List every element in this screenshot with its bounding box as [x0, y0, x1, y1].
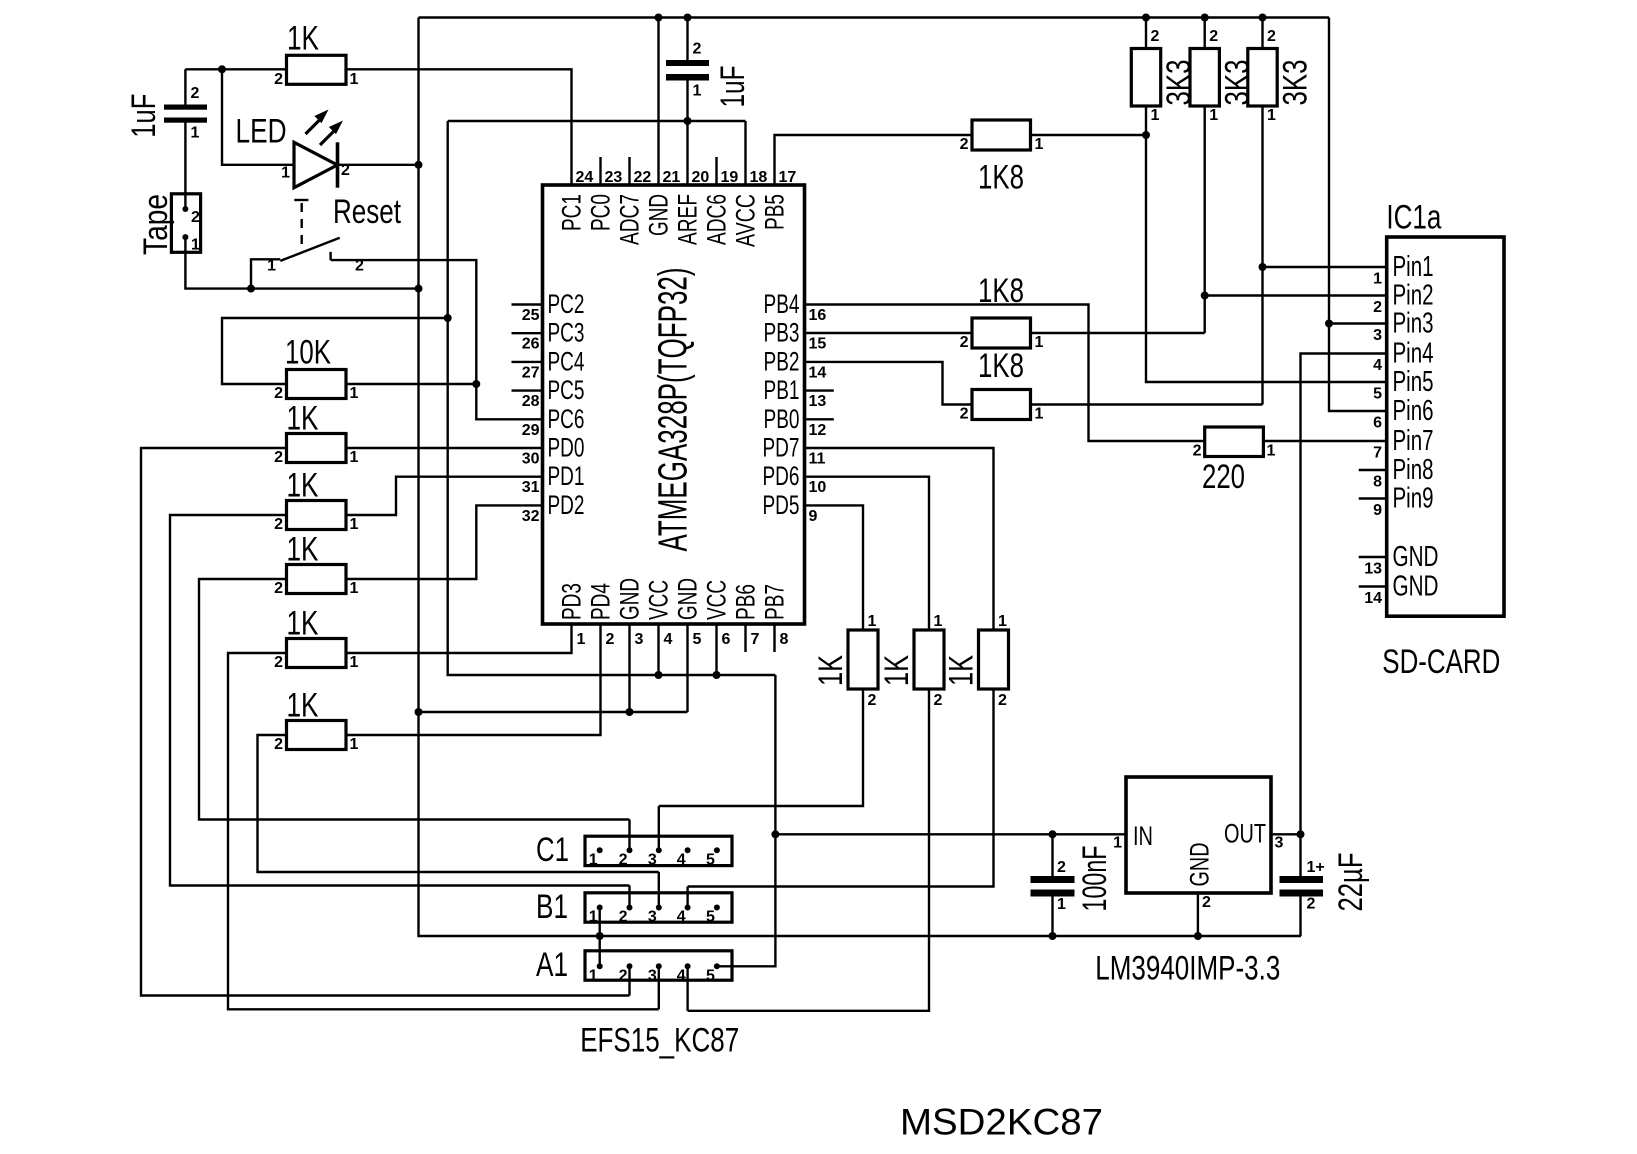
svg-text:1K: 1K	[287, 605, 319, 643]
svg-text:PD6: PD6	[763, 461, 800, 491]
wire 22uF cap connections	[1299, 834, 1301, 936]
resistor R 1K (PD1)	[287, 501, 347, 530]
svg-text:14: 14	[809, 364, 827, 381]
svg-text:9: 9	[1373, 502, 1382, 519]
svg-text:1: 1	[350, 385, 359, 402]
wire 1K8 pin1 to 3K3 vertical	[1031, 134, 1147, 136]
svg-text:Pin1: Pin1	[1393, 251, 1434, 283]
wire PB1 stub	[805, 389, 834, 391]
svg-text:1: 1	[1035, 136, 1044, 153]
svg-text:1: 1	[1267, 443, 1276, 460]
wire IC unconnected top stubs pins 23,22,19	[601, 157, 717, 185]
junction Pin1 net	[1259, 263, 1267, 271]
junction LED cathode to GND	[415, 161, 423, 169]
junction GND to B1.1/A1.1	[596, 932, 604, 940]
svg-text:1: 1	[1113, 835, 1122, 852]
junction GND rail / AREF cap	[684, 14, 692, 22]
wire 1K8 R3 pin1 to Pin1 net, pin2 to PB2	[805, 362, 1263, 405]
svg-text:1: 1	[350, 449, 359, 466]
svg-text:1K: 1K	[943, 655, 981, 686]
wire 3K3 R3 to rail and SD Pin1	[1263, 18, 1387, 405]
wire GND main left vertical and bottom rail	[419, 18, 1302, 937]
svg-text:16: 16	[809, 307, 827, 324]
svg-text:2: 2	[1373, 299, 1382, 316]
svg-text:PC6: PC6	[548, 404, 585, 434]
junction 10K pin1 / PC6	[472, 380, 480, 388]
svg-text:Pin4: Pin4	[1393, 338, 1434, 370]
resistor R 1K (PD3)	[287, 639, 347, 668]
wire VCC vertical down to A1 pin5	[717, 675, 776, 966]
junction Pin3 net	[1325, 320, 1333, 328]
svg-text:3: 3	[648, 909, 657, 926]
svg-text:ATMEGA328P(TQFP32): ATMEGA328P(TQFP32)	[650, 268, 696, 552]
junction Pin2 net	[1201, 292, 1209, 300]
svg-text:PB0: PB0	[764, 404, 800, 434]
wire GND top rail	[419, 16, 1330, 18]
svg-text:1: 1	[1209, 107, 1218, 124]
junction OUT / 22uF / Pin4	[1297, 830, 1305, 838]
capacitor 1uF (AREF)	[666, 60, 709, 66]
svg-text:2: 2	[274, 449, 283, 466]
svg-text:1: 1	[350, 654, 359, 671]
resistor R 1K (LED)	[287, 55, 347, 84]
svg-text:2: 2	[693, 41, 702, 58]
capacitor 100nF	[1031, 876, 1075, 883]
svg-text:11: 11	[809, 451, 826, 468]
wire PD3 net	[228, 624, 659, 1009]
svg-text:1: 1	[1373, 271, 1382, 288]
svg-text:AVCC: AVCC	[731, 194, 761, 247]
svg-text:2: 2	[960, 334, 969, 351]
connector Tape	[171, 194, 200, 253]
svg-text:13: 13	[1364, 561, 1382, 578]
svg-text:OUT: OUT	[1224, 819, 1266, 849]
svg-text:4: 4	[1373, 357, 1382, 374]
wire AREF/AVCC horizontal	[448, 121, 746, 185]
svg-text:2: 2	[619, 967, 628, 984]
svg-text:2: 2	[868, 692, 877, 709]
svg-text:26: 26	[522, 336, 540, 353]
svg-text:2: 2	[1151, 28, 1160, 45]
capacitor 1uF (left)	[164, 105, 207, 110]
svg-text:EFS15_KC87: EFS15_KC87	[580, 1022, 739, 1060]
svg-text:1K: 1K	[287, 20, 319, 58]
svg-text:1K: 1K	[812, 655, 850, 686]
svg-text:PB2: PB2	[764, 346, 800, 376]
op-amp U1 ATMEGA328P(TQFP32) body	[543, 185, 805, 624]
svg-text:12: 12	[809, 422, 827, 439]
svg-text:2: 2	[934, 692, 943, 709]
junction reset pin1 / tape	[247, 285, 255, 293]
svg-text:GND: GND	[1393, 571, 1439, 603]
svg-text:1: 1	[191, 237, 200, 254]
svg-text:PD4: PD4	[586, 583, 616, 620]
resistor 1K8 (PB2)	[972, 390, 1031, 420]
svg-text:PC2: PC2	[548, 289, 585, 319]
svg-text:Pin3: Pin3	[1393, 308, 1434, 340]
svg-text:2: 2	[274, 654, 283, 671]
svg-text:2: 2	[1209, 28, 1218, 45]
svg-text:GND: GND	[644, 194, 674, 236]
svg-text:GND: GND	[615, 578, 645, 620]
svg-text:5: 5	[693, 631, 702, 648]
svg-text:18: 18	[750, 169, 768, 186]
svg-text:22µF: 22µF	[1332, 853, 1370, 912]
svg-text:15: 15	[809, 336, 827, 353]
svg-text:Pin6: Pin6	[1393, 395, 1434, 427]
svg-text:3: 3	[648, 851, 657, 868]
resistor 220	[1205, 427, 1264, 457]
svg-text:VCC: VCC	[702, 580, 732, 620]
svg-text:1: 1	[350, 736, 359, 753]
svg-text:Pin7: Pin7	[1393, 425, 1434, 457]
wire VCC to LM3940 IN	[775, 833, 1126, 835]
svg-text:220: 220	[1202, 458, 1245, 496]
junction LM3940 GND	[1194, 932, 1202, 940]
connector C1	[585, 836, 732, 865]
svg-text:1K: 1K	[878, 655, 916, 686]
svg-text:GND: GND	[1185, 843, 1215, 887]
svg-text:LM3940IMP-3.3: LM3940IMP-3.3	[1095, 950, 1280, 988]
svg-text:2: 2	[998, 692, 1007, 709]
junction 100nF bottom	[1049, 932, 1057, 940]
svg-text:PD3: PD3	[557, 583, 587, 620]
wire GND rail to SD Pin3/Pin6	[1329, 18, 1387, 412]
svg-text:2: 2	[606, 631, 615, 648]
wire PB4 to 220 to SD Pin7	[805, 305, 1387, 442]
svg-text:PB7: PB7	[760, 584, 790, 620]
svg-text:ADC7: ADC7	[615, 194, 645, 245]
svg-text:2: 2	[960, 406, 969, 423]
svg-text:MSD2KC87: MSD2KC87	[900, 1101, 1103, 1143]
resistor R 1K (PD0)	[287, 434, 347, 463]
svg-text:B1: B1	[536, 888, 568, 926]
resistor R 1K (PD2)	[287, 565, 347, 594]
svg-text:SD-CARD: SD-CARD	[1382, 643, 1500, 681]
svg-text:3: 3	[635, 631, 644, 648]
svg-text:8: 8	[780, 631, 789, 648]
svg-text:1: 1	[589, 909, 598, 926]
svg-text:2: 2	[274, 580, 283, 597]
svg-text:2: 2	[355, 258, 364, 275]
svg-text:4: 4	[677, 851, 686, 868]
connector A1	[585, 951, 732, 980]
svg-text:7: 7	[751, 631, 760, 648]
svg-text:1+: 1+	[1307, 859, 1325, 876]
regulator LM3940IMP-3.3 body	[1126, 777, 1271, 893]
wire 3K3 R2 to rail and SD Pin2	[1205, 18, 1387, 334]
svg-text:3K3: 3K3	[1219, 60, 1257, 106]
svg-text:9: 9	[809, 508, 818, 525]
wire GND to IC pin21	[657, 18, 659, 186]
wire PD0 net	[141, 448, 630, 996]
svg-text:PC4: PC4	[548, 346, 585, 376]
junction 100nF top	[1049, 830, 1057, 838]
svg-text:Pin9: Pin9	[1393, 483, 1434, 515]
svg-text:PD2: PD2	[548, 490, 585, 520]
svg-text:1: 1	[281, 165, 290, 182]
svg-text:31: 31	[522, 479, 540, 496]
switch Reset	[280, 238, 339, 261]
svg-text:PD5: PD5	[763, 490, 800, 520]
svg-text:1: 1	[267, 258, 276, 275]
svg-text:3: 3	[1373, 327, 1382, 344]
svg-text:1uF: 1uF	[125, 94, 163, 138]
svg-text:3: 3	[648, 967, 657, 984]
svg-text:2: 2	[1307, 896, 1316, 913]
wire AREF cap to rail and to pin20	[686, 18, 688, 186]
svg-text:2: 2	[341, 162, 350, 179]
wire PD1 net	[170, 477, 630, 908]
svg-text:1: 1	[577, 631, 586, 648]
svg-text:2: 2	[274, 736, 283, 753]
junction VCC to LM3940 IN	[771, 830, 779, 838]
svg-text:LED: LED	[236, 112, 287, 150]
svg-text:1: 1	[191, 125, 200, 142]
svg-text:3K3: 3K3	[1160, 60, 1198, 106]
svg-text:7: 7	[1373, 445, 1382, 462]
svg-text:A1: A1	[536, 946, 568, 984]
junction 10K to VCC	[444, 314, 452, 322]
wire IC unconnected bottom stubs pins 7,8	[746, 624, 775, 652]
svg-text:2: 2	[1267, 28, 1276, 45]
svg-text:Tape: Tape	[137, 194, 175, 255]
svg-text:PC5: PC5	[548, 375, 585, 405]
wire LED branch	[222, 69, 419, 165]
resistor 3K3 (x=1204.7)	[1190, 49, 1219, 107]
junction GND pin3	[626, 708, 634, 716]
capacitor 22uF	[1280, 876, 1324, 883]
wire net PC1: 1K to pin24	[185, 69, 571, 185]
svg-text:1K8: 1K8	[978, 272, 1024, 310]
svg-text:1K8: 1K8	[978, 347, 1024, 385]
svg-text:8: 8	[1373, 474, 1382, 491]
svg-text:19: 19	[721, 169, 739, 186]
svg-text:5: 5	[706, 909, 715, 926]
svg-text:4: 4	[664, 631, 673, 648]
svg-text:13: 13	[809, 393, 827, 410]
svg-text:IN: IN	[1133, 821, 1153, 851]
svg-text:PD7: PD7	[763, 433, 800, 463]
svg-text:2: 2	[1193, 443, 1202, 460]
junction VCC pin6	[713, 671, 721, 679]
wire reset pin1 lead	[251, 259, 280, 288]
svg-text:1: 1	[350, 71, 359, 88]
svg-text:1: 1	[1151, 107, 1160, 124]
svg-text:2: 2	[191, 209, 200, 226]
svg-text:5: 5	[706, 967, 715, 984]
wire SD Pin4 to LM3940 OUT	[1271, 354, 1387, 835]
svg-text:23: 23	[605, 169, 623, 186]
svg-text:14: 14	[1364, 590, 1382, 607]
svg-text:1: 1	[1057, 896, 1066, 913]
wire 1K8 R2 pin1 to Pin2 net	[805, 332, 1205, 334]
svg-text:6: 6	[722, 631, 731, 648]
svg-text:GND: GND	[673, 578, 703, 620]
connector IC1a SD-CARD body	[1387, 237, 1504, 616]
resistor 1K vertical (x=993.5)	[979, 630, 1009, 689]
junction AREF cap / AVCC line	[684, 117, 692, 125]
wire PD2 net	[199, 505, 630, 850]
svg-text:1K: 1K	[287, 400, 319, 438]
svg-text:Pin5: Pin5	[1393, 366, 1434, 398]
svg-text:1K8: 1K8	[978, 159, 1024, 197]
wire 1uF cap to Tape pin2	[184, 69, 186, 209]
svg-text:Pin8: Pin8	[1393, 454, 1434, 486]
svg-text:1: 1	[998, 613, 1007, 630]
wire B1 pin1 / A1 pin1 to GND rail	[599, 908, 601, 967]
resistor 1K8 (PB3)	[972, 318, 1031, 348]
connector B1	[585, 893, 732, 922]
svg-text:3: 3	[1275, 835, 1284, 852]
svg-text:3K3: 3K3	[1276, 60, 1314, 106]
wire PD4 net	[258, 624, 659, 908]
svg-text:PB6: PB6	[731, 584, 761, 620]
junction GND rail / pin21	[655, 14, 663, 22]
svg-text:1K: 1K	[287, 687, 319, 725]
resistor 1K8 (PB5)	[972, 120, 1031, 150]
svg-text:1: 1	[350, 580, 359, 597]
wire PB0 stub	[805, 418, 834, 420]
svg-text:PB1: PB1	[764, 375, 800, 405]
svg-text:IC1a: IC1a	[1386, 199, 1441, 237]
svg-text:1: 1	[589, 851, 598, 868]
wire VCC net: AREF/AVCC line down to IC VCC pins 4,6	[448, 121, 776, 675]
svg-text:1: 1	[1035, 334, 1044, 351]
svg-text:5: 5	[1373, 386, 1382, 403]
svg-text:PC0: PC0	[586, 194, 616, 231]
svg-text:32: 32	[522, 508, 540, 525]
svg-text:2: 2	[274, 516, 283, 533]
junction GND rail / 3K3 R3	[1259, 14, 1267, 22]
svg-text:PC1: PC1	[557, 194, 587, 231]
wire PD6 to 1K and A1 pin4	[688, 477, 929, 1011]
svg-text:6: 6	[1373, 415, 1382, 432]
svg-text:2: 2	[274, 385, 283, 402]
junction node PC1 / LED branch	[218, 65, 226, 73]
svg-text:1uF: 1uF	[714, 66, 752, 108]
svg-text:24: 24	[576, 169, 594, 186]
svg-text:29: 29	[522, 422, 540, 439]
wire 3K3 R1 to rail and SD Pin5	[1146, 18, 1387, 383]
wire Tape pin1 / reset bottom to GND	[185, 237, 418, 289]
wire reset pin2 to PC6 and 10K	[331, 252, 543, 419]
svg-text:1: 1	[868, 613, 877, 630]
svg-text:1: 1	[1035, 406, 1044, 423]
svg-text:2: 2	[274, 71, 283, 88]
wire LM3940 GND pin to GND rail	[1197, 893, 1199, 936]
svg-text:C1: C1	[536, 831, 569, 869]
svg-text:VCC: VCC	[644, 580, 674, 620]
svg-text:PD0: PD0	[548, 433, 585, 463]
resistor R 1K (PD4)	[287, 721, 347, 750]
junction GND rail / 3K3 R1	[1142, 14, 1150, 22]
svg-text:AREF: AREF	[673, 194, 703, 245]
svg-text:27: 27	[522, 364, 540, 381]
svg-text:PB4: PB4	[764, 289, 800, 319]
wire IC GND pins 3,5 to GND vertical	[419, 624, 688, 712]
junction reset net to GND	[415, 285, 423, 293]
resistor 1K vertical (x=863)	[848, 630, 878, 689]
svg-text:1: 1	[589, 967, 598, 984]
junction GND line to main vertical	[415, 708, 423, 716]
svg-text:21: 21	[663, 169, 681, 186]
wire 10K pin2 to VCC	[222, 318, 448, 384]
resistor 1K vertical (x=929)	[914, 630, 944, 689]
svg-text:20: 20	[692, 169, 710, 186]
svg-text:1: 1	[1267, 107, 1276, 124]
svg-text:PD1: PD1	[548, 461, 585, 491]
wire PD7 to 1K and B1 pin4	[688, 448, 994, 908]
svg-text:2: 2	[619, 909, 628, 926]
svg-text:2: 2	[1202, 894, 1211, 911]
svg-text:28: 28	[522, 393, 540, 410]
svg-text:ADC6: ADC6	[702, 194, 732, 245]
junction 1K8 pin1 / 3K3 R1	[1142, 131, 1150, 139]
svg-text:17: 17	[779, 169, 797, 186]
svg-text:10K: 10K	[285, 334, 331, 372]
svg-text:Reset: Reset	[333, 193, 401, 231]
wire SD unconnected stubs pins 8,9,13,14	[1359, 470, 1387, 587]
svg-text:25: 25	[522, 307, 540, 324]
svg-text:2: 2	[191, 85, 200, 102]
svg-text:1: 1	[693, 83, 702, 100]
svg-text:2: 2	[960, 136, 969, 153]
svg-text:1: 1	[934, 613, 943, 630]
junction VCC pin4	[655, 671, 663, 679]
svg-text:1: 1	[350, 516, 359, 533]
svg-text:1K: 1K	[287, 531, 319, 569]
wire 100nF cap connections	[1051, 834, 1053, 936]
svg-text:PB5: PB5	[760, 194, 790, 230]
svg-text:22: 22	[634, 169, 652, 186]
svg-text:100nF: 100nF	[1076, 846, 1114, 912]
svg-text:4: 4	[677, 967, 686, 984]
junction GND rail / 3K3 R2	[1201, 14, 1209, 22]
resistor R 10K (reset pullup)	[287, 370, 347, 399]
svg-text:2: 2	[1057, 859, 1066, 876]
svg-text:5: 5	[706, 851, 715, 868]
svg-text:PB3: PB3	[764, 318, 800, 348]
resistor 3K3 (x=1262.5)	[1248, 49, 1277, 107]
wire PD5 to 1K and C1 pin3	[659, 505, 863, 850]
svg-text:4: 4	[677, 909, 686, 926]
wire PB5 to 1K8	[775, 135, 973, 185]
svg-text:1K: 1K	[287, 467, 319, 505]
svg-text:10: 10	[809, 479, 827, 496]
svg-text:GND: GND	[1393, 541, 1439, 573]
LED D1	[294, 142, 337, 187]
svg-text:2: 2	[619, 851, 628, 868]
svg-text:PC3: PC3	[548, 318, 585, 348]
svg-text:30: 30	[522, 451, 540, 468]
wire IC unconnected left stubs pins 25-28	[512, 305, 543, 391]
resistor 3K3 (x=1146)	[1131, 49, 1160, 107]
